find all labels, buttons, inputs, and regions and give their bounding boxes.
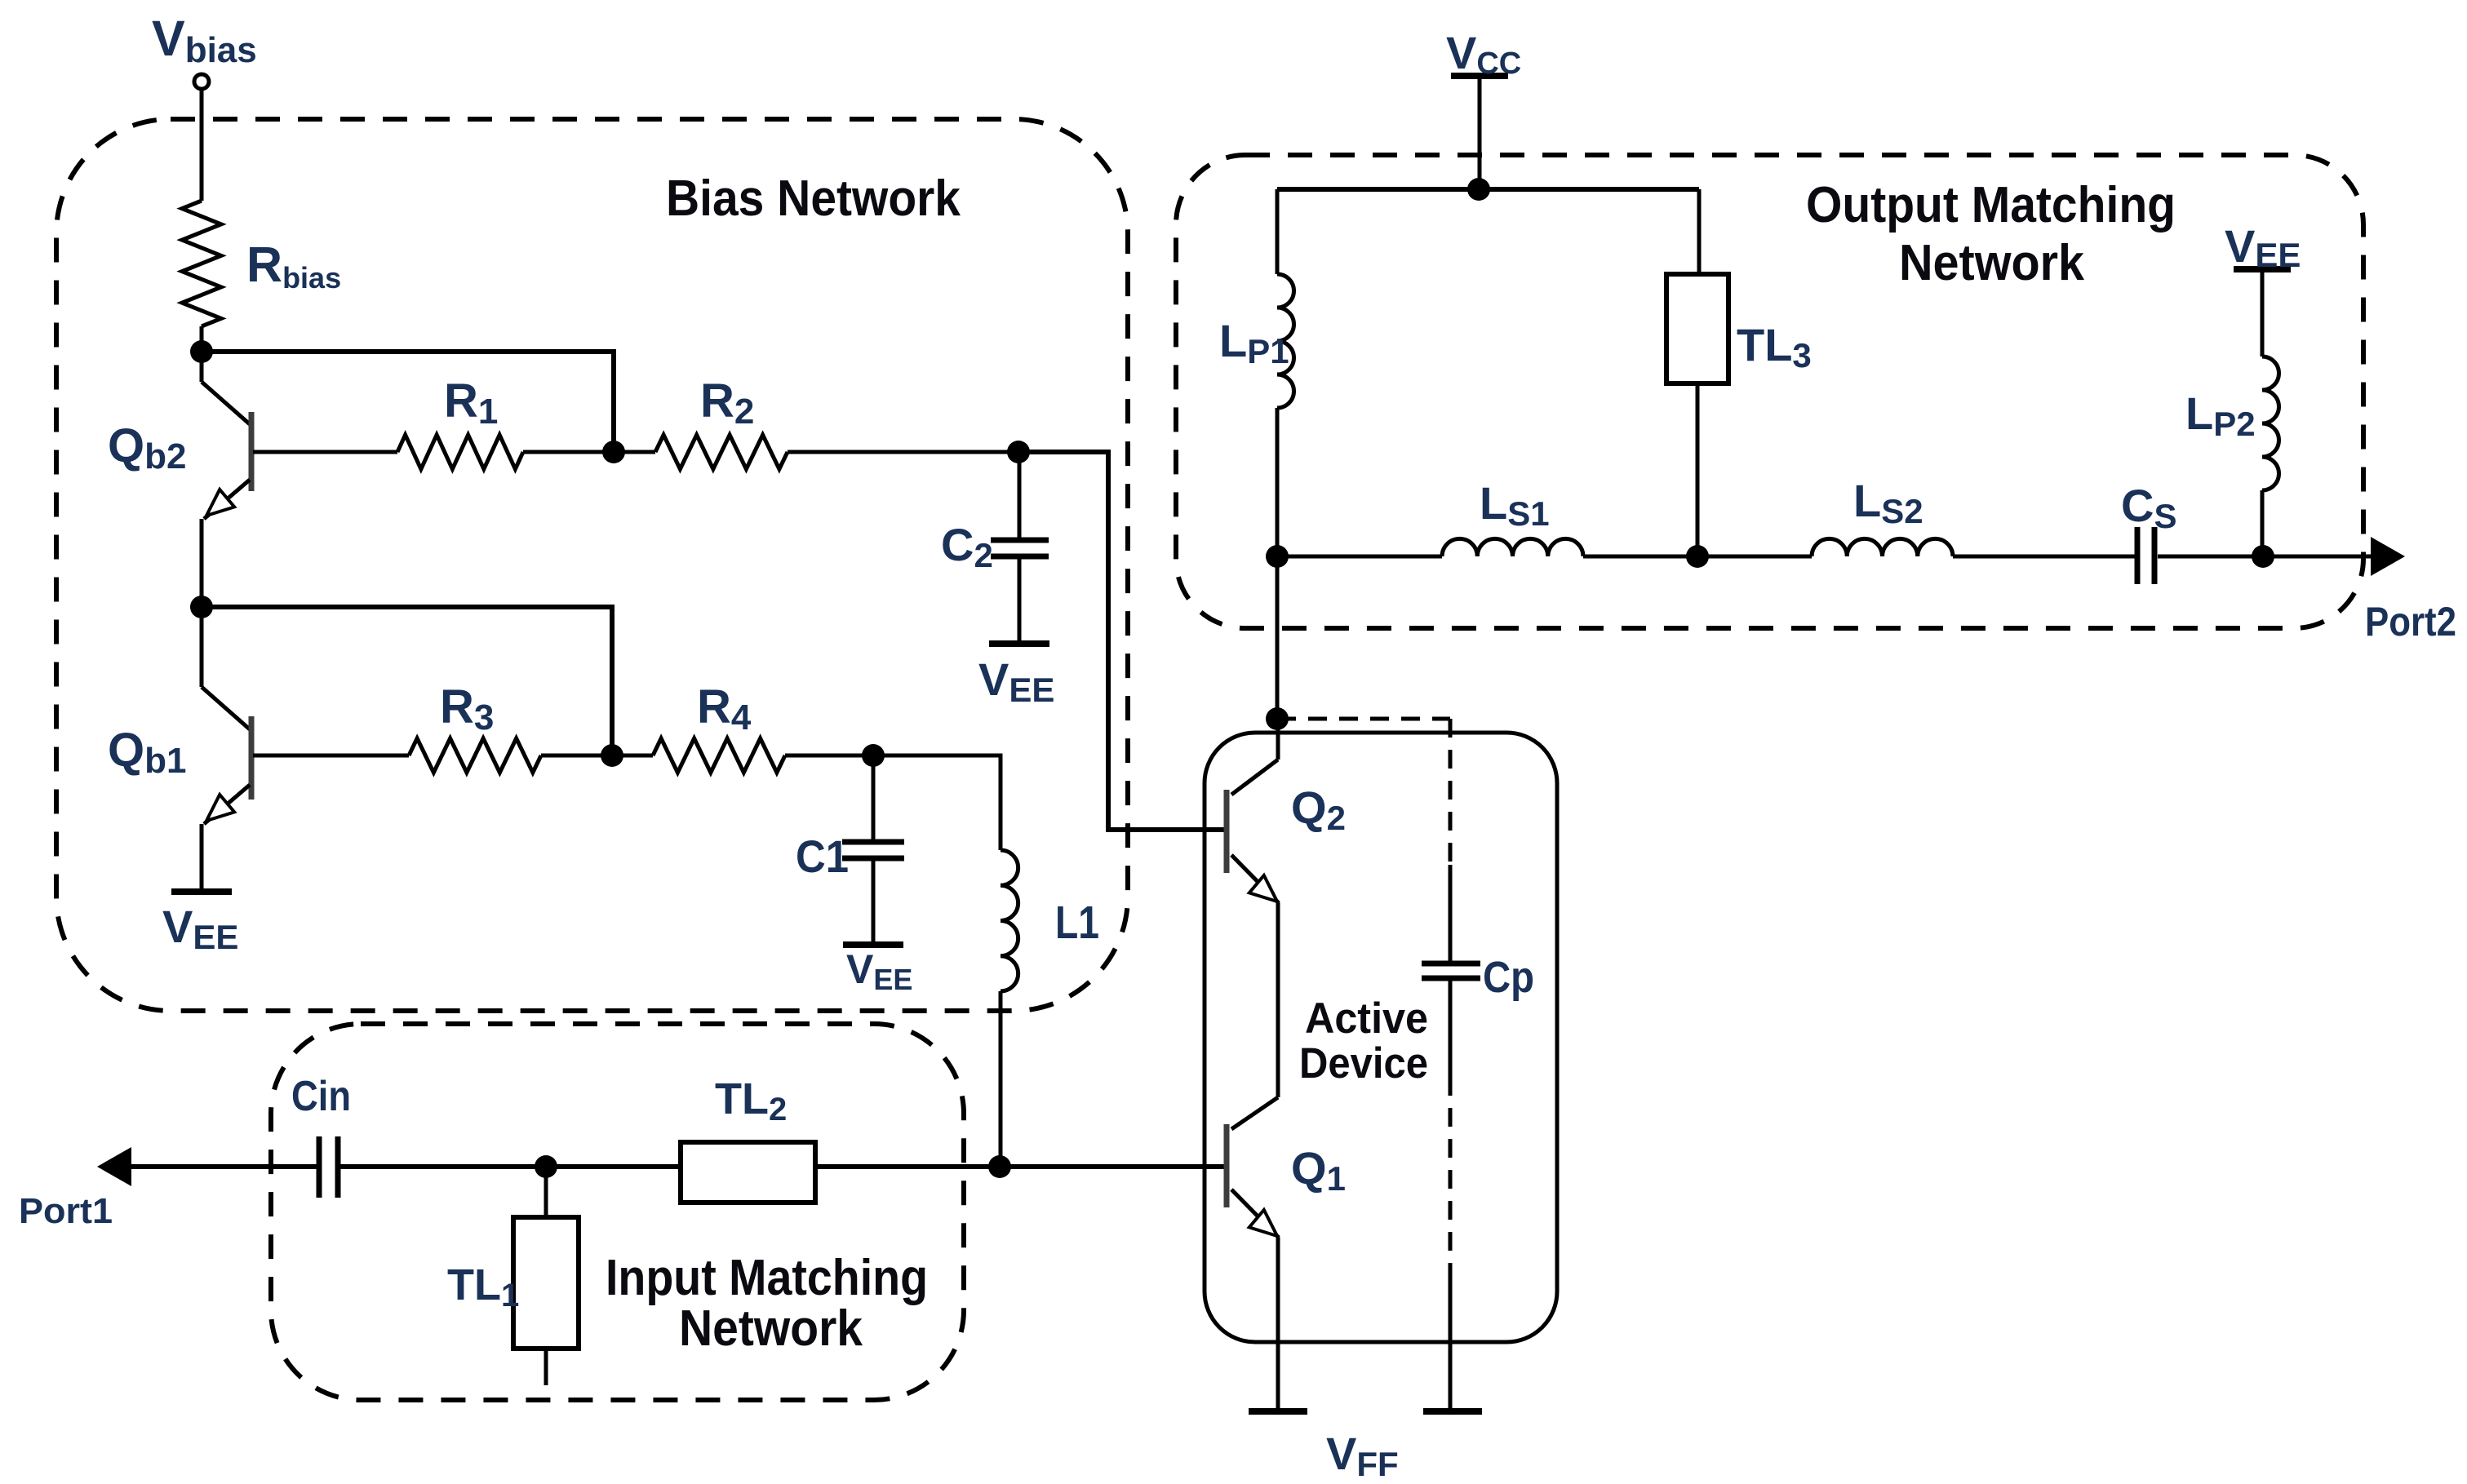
wire CS to node M bbox=[2158, 555, 2371, 559]
transistor Q1 bbox=[1227, 1097, 1279, 1238]
inductor LS1 bbox=[1442, 538, 1583, 556]
node B junction (R1/R2) bbox=[602, 441, 625, 463]
transmission line TL1 (shunt stub box) bbox=[513, 1217, 579, 1349]
node J junction (VCC/LP1/TL3 rail) bbox=[1467, 178, 1490, 201]
Port2 arrow bbox=[2371, 537, 2405, 576]
wire rail to TL3 bbox=[1697, 189, 1702, 274]
label VEE above LP2 bbox=[2225, 220, 2301, 274]
wire node C to C2 bbox=[1018, 452, 1022, 540]
label Qb2 bbox=[108, 419, 186, 476]
label LS2 bbox=[1853, 475, 1923, 530]
label LP1 bbox=[1219, 315, 1289, 370]
label Q2 bbox=[1291, 782, 1346, 837]
label Output Matching Network bbox=[1806, 177, 2176, 291]
wire Q2 emitter to Q1 collector bbox=[1276, 903, 1280, 1097]
TL1 open stub wire bbox=[544, 1349, 548, 1385]
label VEE below Qb1 bbox=[162, 901, 238, 956]
wire node F to C1 bbox=[872, 755, 876, 842]
node D junction (Qb2 emitter/Qb1 collector/R3 rail) bbox=[190, 596, 213, 618]
label Port2 bbox=[2365, 599, 2456, 645]
emitter arrow Qb2 bbox=[206, 489, 234, 516]
capacitor Cp lower lead bbox=[1449, 978, 1453, 1077]
wire LS2 to CS bbox=[1953, 555, 2135, 559]
inductor LS2 bbox=[1812, 538, 1953, 556]
label Vbias bbox=[152, 11, 257, 70]
node K junction (LP1/LS1/Q2 collector) bbox=[1266, 545, 1289, 568]
transmission line TL3 (series box) bbox=[1666, 274, 1728, 383]
node I junction (Q2 collector/LP1 branch) bbox=[1266, 707, 1289, 730]
label TL1 bbox=[447, 1260, 519, 1313]
node L junction (LS1/TL3/LS2) bbox=[1686, 545, 1709, 568]
wire R1 to R2 bbox=[523, 450, 655, 454]
svg-text:Port1: Port1 bbox=[19, 1191, 113, 1231]
node A junction (Rbias/Qb2 collector/R1 rail) bbox=[190, 340, 213, 363]
wire R3 to R4 bbox=[541, 754, 653, 758]
wire top rail LP1 to TL3 bbox=[1277, 187, 1699, 192]
transistor Qb1 bbox=[202, 607, 251, 892]
label R1 bbox=[444, 374, 498, 432]
VEE terminal bar below C2 bbox=[989, 640, 1049, 647]
emitter arrow Q2 bbox=[1249, 875, 1277, 901]
label VCC bbox=[1446, 27, 1521, 81]
inductor L1 bbox=[1001, 850, 1018, 991]
wire node K to LS1 bbox=[1277, 555, 1442, 559]
label LP2 bbox=[2185, 388, 2256, 443]
VEE terminal bar below C1 bbox=[843, 941, 903, 948]
capacitor Cp bottom lead bbox=[1449, 1281, 1453, 1411]
node H junction (L1/input line) bbox=[988, 1155, 1011, 1178]
VFF terminal bar below Q1 bbox=[1249, 1408, 1307, 1415]
wire VEE to LP2 bbox=[2261, 269, 2265, 357]
wire Cin to TL2 bbox=[338, 1164, 681, 1169]
transistor Qb2 bbox=[202, 352, 251, 607]
dashed link node I to Cp bbox=[1277, 717, 1450, 721]
label VEE below C1 bbox=[846, 946, 912, 996]
label CS bbox=[2121, 480, 2176, 535]
capacitor Cp upper lead bbox=[1449, 865, 1453, 963]
capacitor Cp branch upper dashed bbox=[1449, 719, 1453, 865]
svg-text:Cin: Cin bbox=[291, 1073, 351, 1120]
svg-text:L1: L1 bbox=[1055, 897, 1099, 949]
label Qb1 bbox=[108, 724, 186, 781]
emitter arrow Qb1 bbox=[206, 795, 234, 821]
label Cp bbox=[1483, 953, 1534, 1002]
wire node A to R1 rail bbox=[202, 352, 614, 452]
label Bias Network bbox=[666, 171, 961, 227]
label R4 bbox=[697, 680, 752, 738]
VEE terminal bar above LP2 bbox=[2234, 266, 2291, 272]
svg-text:Output Matching: Output Matching bbox=[1806, 177, 2176, 233]
wire TL3 to node L bbox=[1696, 383, 1700, 556]
wire VCC to node J bbox=[1478, 76, 1482, 189]
capacitor CS plates bbox=[2137, 527, 2154, 584]
Port1 arrow bbox=[97, 1147, 131, 1186]
label L1 bbox=[1055, 897, 1099, 949]
wire rail to LP1 bbox=[1276, 189, 1280, 274]
wire node C to Q2 base bbox=[1018, 452, 1227, 830]
wire C2 to VEE bar bbox=[1018, 556, 1022, 644]
svg-text:Network: Network bbox=[679, 1300, 863, 1357]
VFF terminal bar below Cp bbox=[1423, 1408, 1482, 1415]
label R3 bbox=[440, 680, 494, 738]
wire R2 to node C bbox=[788, 450, 1018, 454]
wire LP2 to node M bbox=[2261, 490, 2265, 556]
wire node K to node I bbox=[1276, 556, 1280, 719]
label Input Matching Network bbox=[606, 1250, 928, 1357]
inductor LP1 bbox=[1277, 274, 1294, 408]
wire C1 to VEE bar bbox=[872, 858, 876, 945]
label Cin bbox=[291, 1073, 351, 1120]
svg-text:Bias Network: Bias Network bbox=[666, 171, 961, 227]
wire TL2 to Q1 base bbox=[815, 1164, 1227, 1169]
wire Q1 emitter to VFF bar bbox=[1276, 1238, 1280, 1411]
capacitor Cp plates bbox=[1422, 963, 1480, 978]
resistor R1 bbox=[397, 435, 523, 469]
capacitor Cp branch lower dashed bbox=[1449, 1077, 1453, 1281]
wire node F to L1 bbox=[873, 755, 1001, 850]
transmission line TL2 (series box) bbox=[681, 1142, 815, 1203]
wire LS1 to node L bbox=[1583, 555, 1812, 559]
wire Vbias to Rbias bbox=[200, 89, 204, 201]
wire node D to R3 rail bbox=[202, 607, 612, 755]
supply Vbias terminal bbox=[194, 74, 209, 89]
label C2 bbox=[941, 519, 993, 574]
svg-text:Cp: Cp bbox=[1483, 953, 1534, 1002]
VEE terminal bar below Qb1 bbox=[171, 888, 232, 895]
bias network boundary (dashed box) bbox=[56, 119, 1128, 1011]
resistor Rbias bbox=[182, 201, 221, 326]
svg-text:C1: C1 bbox=[796, 831, 849, 882]
label TL3 bbox=[1737, 319, 1812, 374]
label Rbias bbox=[246, 237, 341, 295]
node G junction (Cin/TL1/TL2) bbox=[535, 1155, 557, 1178]
resistor R3 bbox=[409, 738, 541, 773]
wire Rbias to node A bbox=[200, 326, 204, 352]
svg-text:Input Matching: Input Matching bbox=[606, 1250, 928, 1306]
wire Port1 to Cin bbox=[129, 1164, 319, 1169]
node C junction (R2/C2/Q2 base feed) bbox=[1007, 441, 1030, 463]
label C1 bbox=[796, 831, 849, 882]
wire LP1 to node K bbox=[1276, 408, 1280, 556]
label R2 bbox=[700, 374, 754, 432]
inductor LP2 bbox=[2262, 357, 2279, 490]
wire L1 to input node bbox=[999, 991, 1003, 1167]
wire R4 to node F bbox=[785, 754, 873, 758]
node F junction (R4/C1/L1) bbox=[862, 744, 885, 767]
svg-text:Port2: Port2 bbox=[2365, 599, 2456, 645]
resistor R2 bbox=[655, 435, 788, 469]
wire Qb2 base to R1 bbox=[253, 450, 397, 454]
wire Qb1 base to R3 bbox=[253, 754, 409, 758]
input matching network boundary (dashed box) bbox=[271, 1024, 964, 1400]
capacitor Cin plates bbox=[319, 1136, 338, 1198]
capacitor C2 plates bbox=[991, 540, 1049, 556]
active device boundary (solid rounded box) bbox=[1205, 733, 1557, 1342]
wire node G to TL1 bbox=[544, 1167, 548, 1217]
VCC terminal bar bbox=[1451, 73, 1508, 79]
output matching network boundary (dashed box) bbox=[1176, 155, 2363, 628]
transistor Q2 bbox=[1227, 719, 1279, 903]
node M junction (CS/LP2/Port2) bbox=[2252, 545, 2274, 568]
label Q1 bbox=[1291, 1142, 1346, 1198]
label Active Device bbox=[1299, 995, 1428, 1088]
label LS1 bbox=[1480, 477, 1550, 533]
resistor R4 bbox=[653, 738, 785, 773]
label TL2 bbox=[715, 1074, 787, 1127]
node E junction (R3/R4) bbox=[601, 744, 623, 767]
label VEE below C2 bbox=[978, 653, 1054, 709]
svg-text:Network: Network bbox=[1899, 235, 2084, 291]
emitter arrow Q1 bbox=[1249, 1210, 1277, 1236]
capacitor C1 plates bbox=[842, 842, 904, 858]
label VFF bbox=[1326, 1428, 1399, 1483]
label Port1 bbox=[19, 1191, 113, 1231]
svg-text:Device: Device bbox=[1299, 1039, 1428, 1088]
svg-text:Active: Active bbox=[1305, 995, 1428, 1043]
